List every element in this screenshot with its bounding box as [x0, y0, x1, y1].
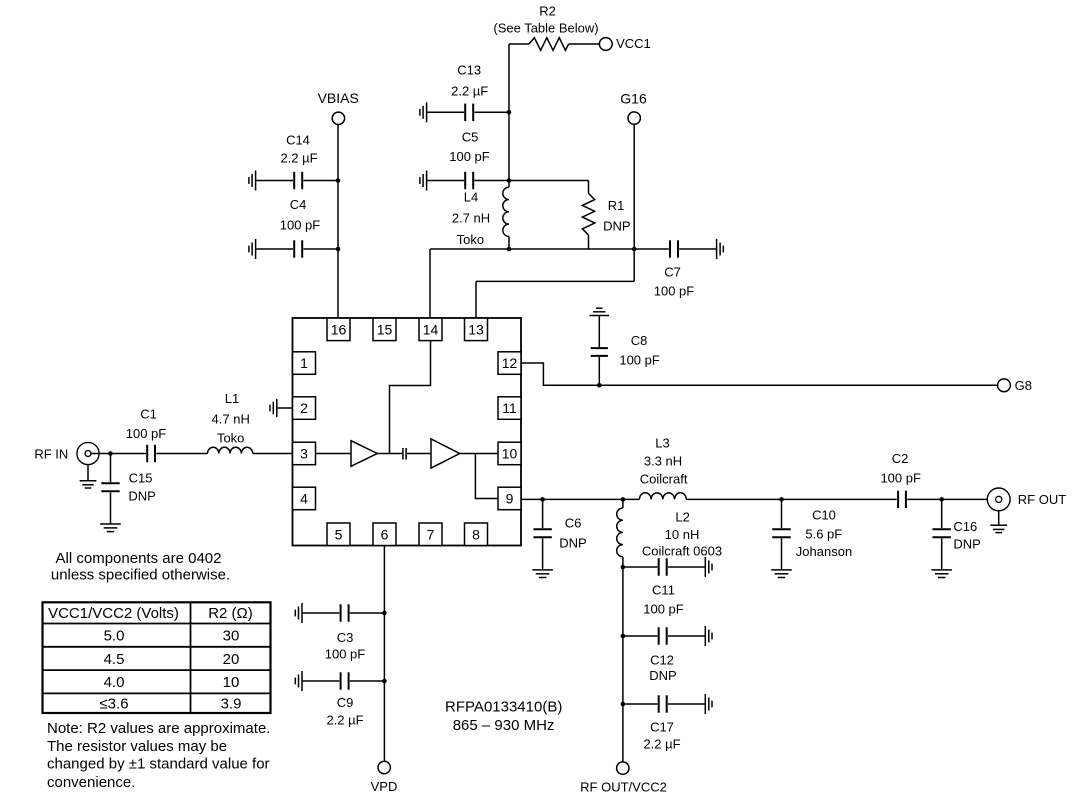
ground at C8 (inverted) [590, 308, 610, 315]
svg-text:12: 12 [502, 355, 518, 371]
svg-text:RF IN: RF IN [34, 447, 68, 462]
node C11 junction [621, 565, 626, 570]
svg-text:DNP: DNP [559, 535, 586, 550]
terminal RF OUT/VCC2 [580, 762, 667, 795]
svg-text:5.0: 5.0 [104, 627, 125, 644]
IC pin 10 [498, 442, 521, 465]
node C16 junction [939, 497, 944, 502]
svg-text:100 pF: 100 pF [880, 471, 921, 486]
svg-text:Note: R2 values are approximat: Note: R2 values are approximate. [47, 720, 270, 737]
ground at C6 [532, 570, 553, 578]
svg-text:C14: C14 [286, 133, 310, 148]
inductor L1 label [212, 391, 250, 446]
node C6 junction [540, 497, 545, 502]
svg-text:L2: L2 [675, 509, 689, 524]
svg-text:2.7 nH: 2.7 nH [452, 210, 490, 225]
capacitor C11 label [643, 583, 684, 617]
ground at C16 [931, 570, 952, 578]
svg-text:C10: C10 [812, 507, 836, 522]
capacitor C17 [623, 695, 705, 712]
note all components 0402 [51, 550, 230, 584]
svg-text:100 pF: 100 pF [280, 218, 321, 233]
ground at C13 [420, 102, 427, 122]
svg-text:DNP: DNP [128, 489, 155, 504]
svg-text:15: 15 [377, 321, 393, 337]
svg-text:DNP: DNP [603, 218, 630, 233]
svg-text:2.2 µF: 2.2 µF [643, 737, 680, 752]
svg-text:2: 2 [300, 400, 308, 416]
capacitor C6 label [559, 515, 586, 550]
wire pin 3 to amplifier 1 [316, 453, 352, 455]
capacitor C10 label [796, 507, 852, 559]
wire down to pin 13 [475, 281, 477, 318]
svg-text:100 pF: 100 pF [643, 602, 684, 617]
capacitor C13 [427, 104, 509, 121]
resistor R1 bottom lead [588, 235, 590, 249]
svg-text:VPD: VPD [371, 779, 398, 794]
capacitor C7 label [654, 264, 695, 298]
svg-text:C13: C13 [457, 63, 481, 78]
wire amp2 to pin 10 [460, 453, 498, 455]
wire RF IN to C1 [91, 453, 146, 455]
svg-text:C17: C17 [650, 720, 674, 735]
svg-text:G8: G8 [1015, 378, 1032, 393]
capacitor C15 label [128, 470, 155, 503]
wire L4/R1 bottom rail [430, 248, 634, 250]
IC pin 7 [419, 523, 442, 546]
svg-text:VCC1: VCC1 [616, 36, 651, 51]
capacitor C16 [933, 499, 951, 569]
svg-text:865 – 930 MHz: 865 – 930 MHz [453, 717, 555, 734]
IC pin 16 [327, 318, 350, 341]
wire bottom rail to pin 14 [429, 249, 431, 318]
svg-text:4.7 nH: 4.7 nH [212, 412, 250, 427]
wire pin 14 bias feed [390, 341, 431, 454]
svg-text:RF OUT/VCC2: RF OUT/VCC2 [580, 780, 667, 795]
capacitor C4 label [280, 197, 321, 232]
R2 value table [43, 602, 271, 713]
resistor R2 value label [493, 4, 598, 36]
svg-text:4.0: 4.0 [104, 674, 125, 691]
svg-text:3: 3 [300, 446, 308, 462]
svg-text:Toko: Toko [217, 431, 244, 446]
svg-text:C12: C12 [650, 653, 674, 668]
node RF IN junction [108, 451, 113, 456]
svg-text:2.2 µF: 2.2 µF [451, 83, 488, 98]
svg-text:DNP: DNP [649, 668, 676, 683]
wire node VCC1-net to R2 [509, 43, 529, 45]
terminal VPD [371, 761, 398, 794]
ground at C12 [705, 626, 712, 646]
IC pin 2 [293, 397, 316, 420]
svg-text:9: 9 [506, 491, 514, 507]
svg-text:convenience.: convenience. [47, 774, 135, 791]
svg-text:C11: C11 [652, 583, 675, 598]
capacitor C14 label [280, 133, 317, 166]
svg-text:DNP: DNP [953, 537, 980, 552]
inductor L4 [503, 187, 509, 236]
svg-text:The resistor values may be: The resistor values may be [47, 738, 227, 755]
svg-text:VBIAS: VBIAS [318, 90, 359, 106]
terminal G8 [998, 378, 1032, 393]
resistor R1 label [603, 198, 630, 233]
ground at C4 [249, 239, 256, 259]
svg-text:(See Table Below): (See Table Below) [493, 20, 598, 35]
capacitor C16 label [953, 519, 980, 552]
svg-text:1: 1 [300, 355, 308, 371]
svg-text:C8: C8 [631, 333, 648, 348]
wire C1 to L1 [156, 453, 207, 455]
svg-text:3.9: 3.9 [221, 696, 242, 713]
node L4 bottom junction [507, 247, 512, 252]
node C8 junction [597, 383, 602, 388]
resistor R2 [529, 38, 569, 51]
svg-text:7: 7 [427, 526, 435, 542]
wire amp2 output to pin 9 [475, 454, 498, 499]
capacitor C3 label [325, 630, 366, 662]
svg-text:5: 5 [335, 526, 343, 542]
op-amp U1 stage 2 [431, 439, 460, 468]
svg-text:Coilcraft 0603: Coilcraft 0603 [642, 544, 722, 559]
svg-text:10: 10 [502, 446, 518, 462]
svg-text:100 pF: 100 pF [126, 426, 167, 441]
svg-text:13: 13 [468, 321, 484, 337]
svg-text:16: 16 [331, 321, 347, 337]
RF IN connector [34, 442, 99, 464]
capacitor C11 [623, 558, 705, 575]
capacitor C5 [427, 172, 509, 189]
svg-text:≤3.6: ≤3.6 [99, 696, 128, 713]
ground at C17 [705, 694, 712, 714]
svg-text:Toko: Toko [457, 232, 484, 247]
RF OUT connector [987, 488, 1066, 511]
note R2 values [47, 720, 270, 791]
inductor L3 label [640, 436, 688, 487]
terminal G16 [620, 90, 647, 124]
node C14 junction [336, 178, 341, 183]
capacitor C12 label [649, 653, 676, 684]
ground at C11 [705, 557, 712, 577]
node C5 junction [507, 178, 512, 183]
capacitor interstage coupling [403, 448, 406, 460]
IC pin 1 [293, 352, 316, 375]
IC pin 4 [293, 487, 316, 510]
capacitor C15 [101, 454, 119, 524]
svg-text:RF OUT: RF OUT [1018, 492, 1066, 507]
capacitor C17 label [643, 720, 680, 752]
svg-text:5.6 pF: 5.6 pF [805, 526, 842, 541]
wire L3 to C10 / C2 [686, 498, 896, 500]
svg-text:unless specified otherwise.: unless specified otherwise. [51, 567, 230, 584]
terminal VBIAS [318, 90, 359, 124]
svg-text:changed by ±1 standard value f: changed by ±1 standard value for [47, 756, 270, 773]
ground at C10 [771, 570, 792, 578]
svg-text:L1: L1 [225, 391, 239, 406]
svg-text:4: 4 [300, 491, 308, 507]
svg-text:2.2 µF: 2.2 µF [280, 151, 317, 166]
svg-text:R2 (Ω): R2 (Ω) [208, 605, 253, 622]
wire coupling cap to amp 2 [407, 453, 431, 455]
node L2/L3 junction [621, 497, 626, 502]
svg-text:10: 10 [223, 674, 240, 691]
inductor L2 top lead [622, 499, 624, 508]
node C12 junction [621, 634, 626, 639]
inductor L4 label [452, 189, 490, 247]
svg-text:C5: C5 [462, 130, 479, 145]
wire L4 bottom lead [508, 236, 510, 249]
svg-text:100 pF: 100 pF [325, 647, 366, 662]
svg-text:G16: G16 [620, 90, 647, 106]
IC pin 5 [327, 523, 350, 546]
inductor L1 [208, 447, 253, 453]
wire L2 to RF OUT/VCC2 [622, 567, 624, 762]
capacitor C9 [303, 672, 385, 689]
IC pin 6 [373, 523, 396, 546]
svg-text:C2: C2 [892, 451, 909, 466]
IC pin 3 [293, 442, 316, 465]
svg-text:100 pF: 100 pF [654, 284, 695, 299]
capacitor C2 label [880, 451, 921, 485]
svg-text:100 pF: 100 pF [619, 353, 660, 368]
wire vertical VCC1 net (x=509) [508, 44, 510, 187]
inductor L2 label [642, 509, 722, 558]
ground at C9 [295, 671, 302, 691]
svg-text:10 nH: 10 nH [665, 527, 700, 542]
svg-text:VCC1/VCC2 (Volts): VCC1/VCC2 (Volts) [48, 605, 179, 622]
svg-text:2.2 µF: 2.2 µF [326, 713, 363, 728]
ground at C5 [420, 171, 427, 191]
inductor L2 [617, 508, 623, 557]
capacitor C1 [147, 445, 155, 462]
wire G16 horizontal to pin 13 [476, 280, 634, 282]
svg-text:R1: R1 [608, 198, 625, 213]
svg-text:RFPA0133410(B): RFPA0133410(B) [445, 698, 562, 715]
node C7 junction [632, 247, 637, 252]
svg-text:L3: L3 [655, 436, 669, 451]
wire R2 to VCC1 terminal [569, 43, 600, 45]
svg-text:4.5: 4.5 [104, 651, 125, 668]
ground at C14 [249, 171, 256, 191]
capacitor C7 [634, 240, 716, 257]
capacitor C13 label [451, 63, 488, 99]
capacitor C2 [898, 491, 906, 508]
IC pin 14 [419, 318, 442, 341]
wire pin 6 to VPD [383, 546, 385, 762]
svg-text:11: 11 [502, 400, 517, 416]
wire VBIAS vertical to pin 16 [337, 125, 339, 318]
capacitor C10 [772, 499, 790, 569]
svg-text:C15: C15 [129, 470, 153, 485]
IC pin 15 [373, 318, 396, 341]
svg-text:Johanson: Johanson [796, 544, 852, 559]
inductor L2 bottom lead [622, 557, 624, 567]
ground at C15 [100, 524, 121, 532]
svg-text:C4: C4 [290, 197, 307, 212]
IC U1 body [293, 318, 522, 546]
node C13 junction [507, 110, 512, 115]
node C3 junction [382, 611, 387, 616]
svg-text:C9: C9 [337, 695, 354, 710]
node C10 junction [779, 497, 784, 502]
svg-text:8: 8 [472, 526, 480, 542]
svg-text:C7: C7 [664, 264, 681, 279]
svg-text:L4: L4 [464, 189, 478, 204]
capacitor C5 label [449, 130, 490, 165]
IC pin 12 [498, 352, 521, 375]
wire G16 vertical [633, 124, 635, 282]
wire pin 12 to G8 [521, 363, 998, 385]
ground RF IN [80, 465, 97, 488]
terminal VCC1 [599, 36, 650, 51]
svg-text:6: 6 [381, 526, 389, 542]
ground at pin 2 [270, 399, 293, 417]
capacitor C4 [256, 240, 338, 257]
node C9 junction [382, 679, 387, 684]
ground RF OUT [990, 511, 1007, 533]
capacitor C6 [533, 499, 551, 569]
ground at C3 [295, 603, 302, 623]
svg-text:C16: C16 [953, 519, 977, 534]
node C4 junction [336, 247, 341, 252]
capacitor C8 label [619, 333, 660, 368]
svg-text:3.3 nH: 3.3 nH [644, 454, 682, 469]
IC pin 9 [498, 487, 521, 510]
IC pin 8 [465, 523, 488, 546]
ground at C7 [717, 239, 724, 259]
svg-text:100 pF: 100 pF [449, 149, 490, 164]
capacitor C3 [303, 604, 385, 621]
node C17 junction [621, 702, 626, 707]
wire L1 to pin 3 [253, 453, 293, 455]
capacitor C9 label [326, 695, 363, 728]
wire C2 to RF OUT [907, 498, 995, 500]
capacitor C8 [591, 316, 608, 385]
resistor R1 [582, 193, 594, 235]
wire C5 node to R1 top [509, 180, 589, 182]
inductor L3 [639, 493, 686, 500]
svg-text:14: 14 [423, 321, 439, 337]
IC pin 11 [498, 397, 521, 420]
part number label [445, 698, 562, 734]
IC pin 13 [465, 318, 488, 341]
wire pin 9 output rail [521, 498, 639, 500]
svg-text:R2: R2 [539, 4, 556, 19]
op-amp U1 stage 1 [351, 441, 377, 467]
svg-text:C1: C1 [140, 406, 157, 421]
svg-text:20: 20 [223, 651, 240, 668]
capacitor C1 label [126, 406, 167, 441]
svg-text:All components are 0402: All components are 0402 [56, 550, 222, 567]
svg-text:C3: C3 [337, 630, 354, 645]
svg-text:30: 30 [223, 627, 240, 644]
svg-text:C6: C6 [565, 515, 582, 530]
capacitor C14 [256, 172, 338, 189]
wire amp1 to coupling cap [377, 453, 402, 455]
capacitor C12 [623, 627, 705, 644]
svg-text:Coilcraft: Coilcraft [640, 471, 688, 486]
resistor R1 top lead [588, 181, 590, 194]
